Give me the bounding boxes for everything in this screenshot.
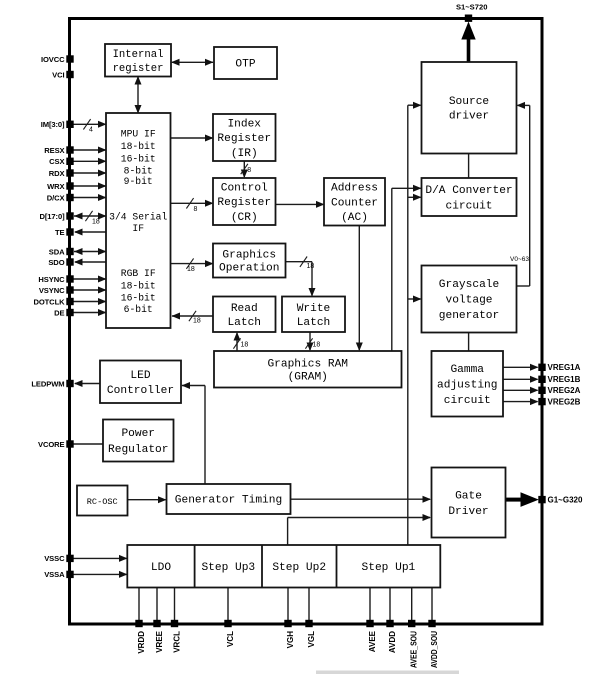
svg-text:Graphics RAM: Graphics RAM bbox=[267, 358, 348, 370]
svg-text:Regulator: Regulator bbox=[108, 444, 168, 456]
svg-text:VGL: VGL bbox=[307, 631, 316, 648]
svg-text:Address: Address bbox=[331, 183, 378, 195]
svg-text:adjusting: adjusting bbox=[437, 379, 497, 391]
svg-text:D/A Converter: D/A Converter bbox=[425, 185, 512, 197]
svg-text:LDO: LDO bbox=[151, 562, 171, 574]
svg-text:VREG1B: VREG1B bbox=[548, 375, 581, 384]
svg-text:generator: generator bbox=[439, 310, 499, 322]
svg-text:IF: IF bbox=[132, 223, 144, 234]
svg-text:VREE: VREE bbox=[155, 630, 164, 652]
svg-text:Read: Read bbox=[231, 303, 258, 315]
svg-text:18: 18 bbox=[187, 266, 195, 273]
svg-text:CSX: CSX bbox=[49, 157, 64, 166]
svg-text:Write: Write bbox=[297, 303, 331, 315]
svg-text:D[17:0]: D[17:0] bbox=[39, 212, 65, 221]
svg-text:8: 8 bbox=[194, 206, 198, 213]
svg-text:Control: Control bbox=[221, 182, 268, 194]
svg-text:HSYNC: HSYNC bbox=[38, 275, 65, 284]
svg-text:driver: driver bbox=[449, 111, 489, 123]
svg-text:VSYNC: VSYNC bbox=[39, 286, 65, 295]
svg-text:18: 18 bbox=[307, 263, 315, 270]
svg-text:18: 18 bbox=[241, 342, 249, 349]
svg-text:16-bit: 16-bit bbox=[121, 154, 156, 165]
svg-text:VCI: VCI bbox=[52, 70, 64, 79]
svg-text:voltage: voltage bbox=[446, 295, 493, 307]
svg-text:Register: Register bbox=[217, 133, 271, 145]
svg-text:G1~G320: G1~G320 bbox=[548, 495, 583, 504]
svg-text:VREG2B: VREG2B bbox=[548, 397, 581, 406]
svg-text:18-bit: 18-bit bbox=[121, 141, 156, 152]
svg-text:RGB IF: RGB IF bbox=[121, 268, 156, 279]
svg-text:VSSC: VSSC bbox=[44, 554, 65, 563]
svg-text:circuit: circuit bbox=[444, 395, 491, 407]
svg-text:18: 18 bbox=[92, 219, 100, 226]
svg-text:Step Up2: Step Up2 bbox=[272, 562, 326, 574]
svg-text:Latch: Latch bbox=[227, 317, 261, 329]
svg-text:SDO: SDO bbox=[48, 258, 64, 267]
svg-text:AVDD_SOU: AVDD_SOU bbox=[430, 631, 439, 668]
svg-text:18-bit: 18-bit bbox=[121, 280, 156, 291]
svg-text:WRX: WRX bbox=[47, 182, 64, 191]
svg-text:Internal: Internal bbox=[113, 49, 164, 61]
svg-text:VGH: VGH bbox=[286, 631, 295, 649]
svg-text:Driver: Driver bbox=[448, 506, 488, 518]
svg-text:MPU IF: MPU IF bbox=[121, 128, 156, 139]
svg-text:VCORE: VCORE bbox=[38, 440, 65, 449]
svg-text:TE: TE bbox=[55, 228, 65, 237]
svg-text:Graphics: Graphics bbox=[222, 250, 276, 262]
svg-text:AVDD: AVDD bbox=[388, 631, 397, 653]
svg-text:Grayscale: Grayscale bbox=[439, 279, 499, 291]
svg-text:8: 8 bbox=[247, 167, 251, 174]
svg-text:VREG1A: VREG1A bbox=[548, 363, 581, 372]
svg-text:9-bit: 9-bit bbox=[124, 176, 153, 187]
svg-text:(GRAM): (GRAM) bbox=[288, 371, 328, 383]
svg-text:LEDPWM: LEDPWM bbox=[31, 379, 64, 388]
svg-text:VCL: VCL bbox=[226, 631, 235, 647]
svg-text:Latch: Latch bbox=[297, 317, 331, 329]
svg-text:Source: Source bbox=[449, 96, 489, 108]
svg-text:18: 18 bbox=[193, 318, 201, 325]
svg-text:RESX: RESX bbox=[44, 146, 64, 155]
svg-text:8-bit: 8-bit bbox=[124, 165, 153, 176]
svg-text:Register: Register bbox=[217, 197, 271, 209]
svg-text:VRCL: VRCL bbox=[172, 631, 181, 653]
svg-text:Gamma: Gamma bbox=[450, 364, 484, 376]
svg-text:DOTCLK: DOTCLK bbox=[33, 297, 65, 306]
svg-text:IM[3:0]: IM[3:0] bbox=[41, 120, 65, 129]
svg-text:register: register bbox=[113, 63, 164, 75]
svg-text:DE: DE bbox=[54, 308, 64, 317]
svg-text:LED: LED bbox=[130, 370, 150, 382]
svg-text:Generator Timing: Generator Timing bbox=[175, 495, 282, 507]
svg-text:(AC): (AC) bbox=[341, 212, 368, 224]
svg-text:RDX: RDX bbox=[49, 169, 65, 178]
svg-text:Power: Power bbox=[121, 428, 155, 440]
svg-text:VRDD: VRDD bbox=[137, 631, 146, 654]
svg-text:OTP: OTP bbox=[235, 59, 255, 71]
svg-text:Controller: Controller bbox=[107, 385, 174, 397]
svg-text:VREG2A: VREG2A bbox=[548, 386, 581, 395]
svg-text:(IR): (IR) bbox=[231, 148, 258, 160]
svg-text:3/4 Serial: 3/4 Serial bbox=[109, 212, 167, 223]
svg-text:Counter: Counter bbox=[331, 197, 378, 209]
svg-text:S1~S720: S1~S720 bbox=[456, 3, 487, 12]
svg-text:IOVCC: IOVCC bbox=[41, 55, 65, 64]
svg-text:V0~63: V0~63 bbox=[510, 256, 529, 263]
svg-text:6-bit: 6-bit bbox=[124, 304, 153, 315]
svg-text:D/CX: D/CX bbox=[47, 193, 65, 202]
svg-text:SDA: SDA bbox=[49, 247, 65, 256]
svg-text:RC-OSC: RC-OSC bbox=[87, 497, 118, 507]
svg-text:circuit: circuit bbox=[446, 200, 493, 212]
svg-text:Gate: Gate bbox=[455, 490, 482, 502]
svg-text:VSSA: VSSA bbox=[44, 570, 65, 579]
svg-text:AVEE: AVEE bbox=[368, 630, 377, 652]
svg-text:Step Up1: Step Up1 bbox=[362, 562, 416, 574]
svg-text:(CR): (CR) bbox=[231, 212, 258, 224]
svg-text:AVEE_SOU: AVEE_SOU bbox=[410, 631, 419, 668]
svg-text:Index: Index bbox=[227, 118, 261, 130]
svg-text:16-bit: 16-bit bbox=[121, 293, 156, 304]
svg-text:4: 4 bbox=[89, 126, 93, 133]
svg-text:18: 18 bbox=[313, 342, 321, 349]
svg-text:Operation: Operation bbox=[219, 263, 279, 275]
svg-text:Step Up3: Step Up3 bbox=[201, 562, 255, 574]
